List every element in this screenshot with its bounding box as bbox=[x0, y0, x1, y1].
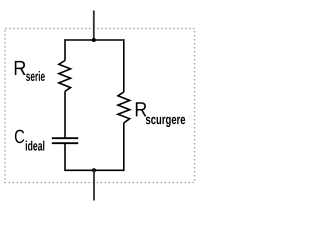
node top junction bbox=[92, 38, 96, 42]
resistor Rserie bbox=[59, 61, 71, 92]
label Rscurgere bbox=[136, 102, 147, 116]
wire right branch upper bbox=[123, 39, 125, 92]
wire top horizontal bbox=[65, 39, 124, 41]
wire top terminal bbox=[93, 11, 95, 41]
capacitor Cideal top plate bbox=[52, 137, 78, 139]
wire bottom horizontal bbox=[65, 169, 124, 171]
wire left branch middle bbox=[64, 91, 66, 138]
node bottom junction bbox=[92, 168, 96, 172]
label Rserie bbox=[15, 61, 26, 75]
wire right branch lower bbox=[123, 123, 125, 171]
wire left branch lower bbox=[64, 143, 66, 171]
dashed boundary box bbox=[5, 29, 195, 183]
capacitor Cideal bottom plate bbox=[52, 142, 78, 144]
wire bottom terminal bbox=[93, 170, 95, 200]
label Cideal bbox=[15, 130, 24, 144]
resistor Rscurgere bbox=[118, 92, 130, 123]
wire left branch upper bbox=[64, 39, 66, 60]
